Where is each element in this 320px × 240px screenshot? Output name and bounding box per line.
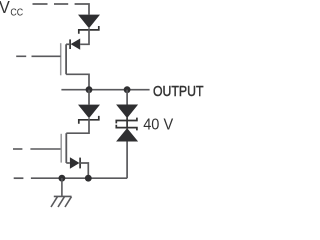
junction dot at ground stub [59,175,66,182]
40 V clamp: lower zener (cathode up) [116,125,138,178]
svg-text:40 V: 40 V [143,117,173,134]
ground symbol [51,178,72,207]
output wire [61,89,149,91]
wire: clamp stem between zeners [126,117,128,129]
Vcc net label [0,0,24,18]
upper transistor Q1 (p-channel, simplified MOS symbol) [16,43,66,75]
wire: D2 cathode to upper transistor source [66,43,70,45]
Vcc wire (dashed supply lead) [33,4,90,15]
wire: Q1 drain to output node [66,74,89,89]
svg-text:CC: CC [10,8,23,19]
wire: D4 cathode down to ground rail [80,163,88,178]
body diode D4 of lower transistor (points right) [66,157,80,169]
svg-text:V: V [0,0,10,17]
svg-text:OUTPUT: OUTPUT [153,83,204,100]
40 V clamp: upper zener (cathode down) [116,90,138,124]
wire: D3 to lower transistor drain [66,118,89,133]
junction dot at drain/output node [86,86,93,93]
zener diode D3 (output node down to lower transistor) [78,90,100,124]
ground rail wire (dashed at left) [14,177,127,179]
junction dot at Q2 source [85,175,92,182]
body diode D2 of upper transistor (points left) [70,39,80,50]
zener diode D1 (series diode from Vcc) [78,15,100,34]
wire: D1 cathode down to body-diode node [80,28,89,44]
junction dot at clamp branch [124,86,131,93]
lower transistor Q2 (n-channel, simplified MOS symbol) [13,133,66,163]
